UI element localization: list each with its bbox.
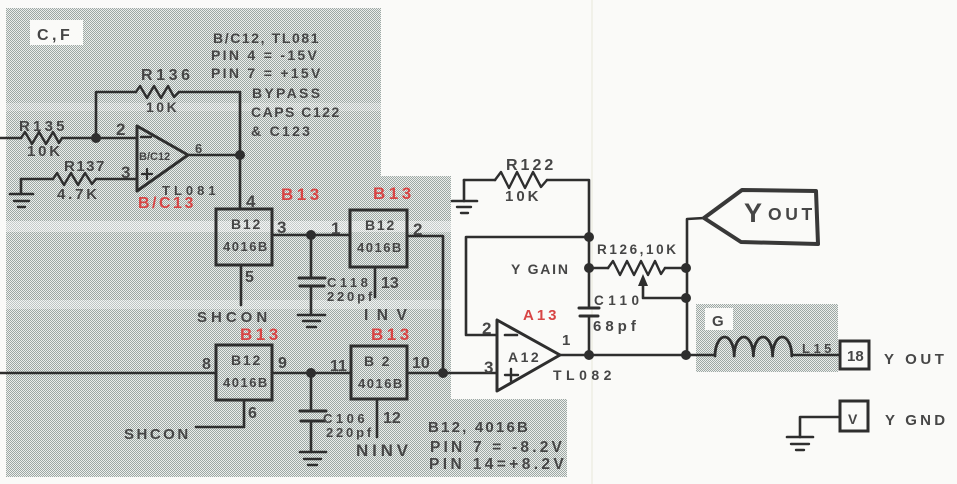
svg-text:PIN 7 = +15V: PIN 7 = +15V xyxy=(211,65,323,81)
svg-text:13: 13 xyxy=(381,275,399,292)
resistor R135 xyxy=(19,118,68,160)
svg-text:TL082: TL082 xyxy=(553,367,616,383)
shaded region main (halftone) xyxy=(6,8,567,477)
resistor R122 xyxy=(464,157,589,237)
svg-text:C118: C118 xyxy=(327,275,371,290)
svg-text:8: 8 xyxy=(202,356,211,373)
svg-text:220pf: 220pf xyxy=(326,425,374,440)
svg-text:INV: INV xyxy=(364,307,415,324)
wire pin3 to pin1 xyxy=(272,234,350,237)
svg-text:C110: C110 xyxy=(594,293,644,308)
label box G xyxy=(705,308,733,330)
ground (C118) xyxy=(298,315,325,327)
svg-text:A12: A12 xyxy=(508,349,541,365)
svg-text:B/C12, TL081: B/C12, TL081 xyxy=(213,30,320,46)
terminal box V xyxy=(840,401,868,431)
svg-text:B12: B12 xyxy=(365,217,396,233)
terminal box 18 xyxy=(840,341,869,369)
wire feedback riser xyxy=(96,92,136,138)
wire A12 output rail xyxy=(560,354,714,357)
svg-text:2: 2 xyxy=(116,120,125,139)
svg-text:3: 3 xyxy=(484,358,493,377)
svg-text:4016B: 4016B xyxy=(223,239,269,254)
resistor R126 potentiometer xyxy=(589,242,686,275)
svg-text:G: G xyxy=(712,313,724,330)
svg-text:5: 5 xyxy=(245,269,254,286)
svg-text:3: 3 xyxy=(121,163,130,182)
wire input to R135 xyxy=(0,137,21,140)
switch U3 B12 4016B (top-right) xyxy=(350,210,407,267)
svg-text:1: 1 xyxy=(562,332,570,349)
capacitor C110 xyxy=(579,293,644,355)
wire to pin4 of B12 xyxy=(239,155,242,209)
svg-text:PIN 4 = -15V: PIN 4 = -15V xyxy=(211,47,319,63)
svg-text:2: 2 xyxy=(482,319,491,338)
svg-text:R126,10K: R126,10K xyxy=(597,242,679,257)
light scan bands xyxy=(6,221,451,232)
wire feedback to A12 pin2 xyxy=(466,237,589,335)
svg-text:B/C12: B/C12 xyxy=(139,151,170,163)
svg-text:BYPASS: BYPASS xyxy=(252,85,322,101)
svg-text:4.7K: 4.7K xyxy=(57,186,100,203)
pin 13 stub xyxy=(374,267,377,297)
node pin2/pin10 junction xyxy=(438,368,448,378)
node wiper right xyxy=(681,293,691,303)
svg-text:R122: R122 xyxy=(506,157,556,174)
svg-text:4016B: 4016B xyxy=(223,375,269,390)
svg-text:C,F: C,F xyxy=(37,27,73,44)
svg-text:B 2: B 2 xyxy=(364,353,391,369)
op-amp U6 A12 TL082 xyxy=(482,319,616,391)
svg-text:R135: R135 xyxy=(19,118,68,135)
pin 6 wire xyxy=(196,400,244,427)
svg-text:10: 10 xyxy=(412,355,430,372)
node C118 junction xyxy=(306,230,316,240)
svg-text:220pf: 220pf xyxy=(327,289,375,304)
svg-text:18: 18 xyxy=(847,348,864,365)
svg-text:6: 6 xyxy=(248,405,257,422)
page seam xyxy=(591,0,593,484)
wire R135 to op-amp pin2 xyxy=(62,137,137,140)
svg-text:B12, 4016B: B12, 4016B xyxy=(428,419,530,436)
wire node down Y GAIN xyxy=(588,237,591,308)
node output xyxy=(584,350,594,360)
svg-text:10K: 10K xyxy=(505,188,542,205)
svg-text:SHCON: SHCON xyxy=(124,426,191,443)
svg-text:C106: C106 xyxy=(323,411,368,426)
svg-text:& C123: & C123 xyxy=(251,123,312,139)
resistor R137 xyxy=(21,158,106,203)
wire L15 to pin 18 xyxy=(792,354,840,357)
svg-text:12: 12 xyxy=(383,410,401,427)
resistor R136 xyxy=(136,67,194,115)
svg-text:4016B: 4016B xyxy=(358,376,404,391)
node output right xyxy=(681,350,691,360)
node C106 junction xyxy=(306,368,316,378)
ground (R137) xyxy=(10,179,33,207)
node output junction xyxy=(235,150,245,160)
inductor L15 xyxy=(715,337,835,356)
svg-text:4016B: 4016B xyxy=(357,240,403,255)
capacitor C118 xyxy=(299,235,375,315)
svg-text:V: V xyxy=(848,411,858,427)
wire pin10 to A12 pin3 xyxy=(407,372,497,375)
switch U2 B12 4016B (top-left) xyxy=(216,209,272,265)
wire R136 to output node xyxy=(179,92,240,155)
node junction R135/feedback xyxy=(91,133,101,143)
wire R137 to op-amp pin3 xyxy=(96,178,137,181)
svg-text:B12: B12 xyxy=(231,352,262,368)
svg-text:B13: B13 xyxy=(373,184,415,203)
annotation top note xyxy=(211,30,341,139)
svg-text:10K: 10K xyxy=(146,99,179,115)
svg-text:R137: R137 xyxy=(64,158,106,175)
wire input NINV rail xyxy=(0,372,216,375)
svg-text:Y OUT: Y OUT xyxy=(884,351,948,368)
svg-text:10K: 10K xyxy=(27,143,63,160)
svg-text:PIN 14=+8.2V: PIN 14=+8.2V xyxy=(429,456,567,473)
node R122/feedback xyxy=(584,232,594,242)
flag Y OUT xyxy=(704,190,818,244)
svg-text:R136: R136 xyxy=(141,67,194,84)
wire pin9 to pin11 xyxy=(272,372,351,375)
svg-text:11: 11 xyxy=(330,358,347,375)
wire flag riser xyxy=(687,218,704,355)
ground (R122) xyxy=(452,180,477,213)
svg-text:A13: A13 xyxy=(523,307,560,324)
svg-text:1: 1 xyxy=(331,219,340,238)
shaded region G block xyxy=(696,304,838,372)
svg-text:3: 3 xyxy=(277,218,286,237)
op-amp U1 B/C12 TL081 xyxy=(116,120,220,198)
svg-text:B/C13: B/C13 xyxy=(138,195,196,212)
svg-text:SHCON: SHCON xyxy=(197,309,271,326)
switch U4 B12 4016B (bottom-left) xyxy=(216,345,272,400)
svg-text:B13: B13 xyxy=(371,325,413,344)
svg-text:B13: B13 xyxy=(281,185,323,204)
switch U5 B2 4016B (bottom-right) xyxy=(351,346,407,399)
svg-text:B13: B13 xyxy=(240,325,282,344)
svg-text:Y GND: Y GND xyxy=(885,412,948,429)
ground (C106) xyxy=(300,452,326,465)
wiper arrow R126 xyxy=(638,274,686,298)
svg-text:9: 9 xyxy=(278,355,287,372)
label box C,F xyxy=(30,20,83,45)
svg-text:68pf: 68pf xyxy=(593,318,640,335)
wire op-amp output to node xyxy=(188,154,240,157)
node Y GAIN xyxy=(584,263,594,273)
capacitor C106 xyxy=(300,373,374,452)
ground (Y GND) xyxy=(787,437,813,450)
wire pin2 down to NINV rail xyxy=(407,236,443,373)
svg-text:CAPS C122: CAPS C122 xyxy=(251,104,341,120)
node R126 right xyxy=(681,263,691,273)
svg-text:NINV: NINV xyxy=(356,441,412,460)
svg-text:B12: B12 xyxy=(231,216,262,232)
pin 5 stub xyxy=(240,265,243,305)
svg-text:Y: Y xyxy=(744,198,762,228)
svg-text:Y GAIN: Y GAIN xyxy=(511,261,570,277)
wire V box to ground xyxy=(800,417,840,437)
svg-text:PIN 7 = -8.2V: PIN 7 = -8.2V xyxy=(430,439,565,456)
svg-text:OUT: OUT xyxy=(768,204,816,224)
annotation bottom note xyxy=(428,419,567,473)
pin 12 stub xyxy=(376,399,379,437)
